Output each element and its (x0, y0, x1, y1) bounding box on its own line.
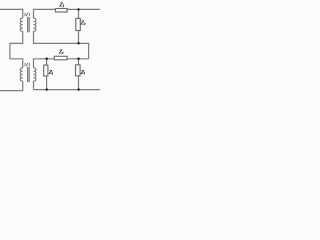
svg-text:Z: Z (80, 20, 85, 27)
junction node E (46, 88, 48, 90)
resistor Z2 shunt (upper) (76, 18, 81, 30)
wire Z1low top stub (46, 59, 48, 65)
wire T1 secondary bottom rail2 to right column (34, 31, 89, 59)
wire bottom secondary rail (34, 89, 101, 91)
junction node D (77, 58, 79, 60)
transformer T1 (1/1) (20, 17, 36, 32)
wire Z2 bottom to rail2 (78, 31, 80, 44)
svg-text:Z: Z (80, 69, 85, 76)
wire Z3 bottom stub (78, 76, 80, 90)
wire Z1low bottom stub (46, 76, 48, 90)
T1 right winding (34, 18, 37, 31)
T2 right winding (34, 68, 37, 81)
T1 label 1/1 (25, 13, 29, 17)
wire Z2low right to right column (67, 58, 89, 60)
wire primary series zigzag (10, 31, 23, 68)
resistor Z1 top (series) (56, 9, 68, 13)
junction node B (77, 42, 79, 44)
junction node A (77, 8, 79, 10)
wire node A drop to Z2 (78, 9, 80, 18)
resistor Z1 lower (shunt) (44, 65, 48, 76)
T2 core (27, 67, 29, 82)
wire Z1 to right edge (67, 8, 100, 10)
svg-text:Z: Z (58, 1, 63, 8)
wire Z3 top stub (78, 59, 80, 65)
junction node C (46, 58, 48, 60)
resistor Z2 lower (series) (54, 56, 67, 60)
svg-text:Z: Z (48, 69, 53, 76)
T1 core (27, 17, 29, 32)
T2 left winding (20, 68, 23, 81)
wire T1 secondary top to Z1 (34, 9, 56, 18)
T2 label 1/1 (25, 63, 29, 66)
svg-text:Z: Z (58, 48, 63, 55)
wire bottom-left output (0, 81, 23, 91)
junction node F (77, 88, 79, 90)
wire T2 secondary top to rail3 (34, 59, 55, 68)
resistor Z3 shunt (76, 65, 81, 76)
transformer T2 (1/1) (20, 67, 36, 82)
T1 left winding (20, 18, 22, 31)
wire T2 secondary bottom drop (33, 81, 35, 90)
wire top-left input (0, 9, 23, 18)
